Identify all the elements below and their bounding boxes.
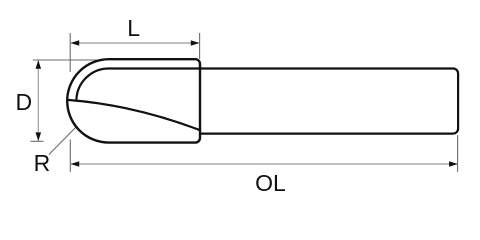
svg-text:OL: OL	[255, 170, 286, 196]
svg-text:R: R	[34, 150, 51, 176]
svg-text:L: L	[127, 15, 140, 41]
svg-text:D: D	[16, 89, 33, 115]
